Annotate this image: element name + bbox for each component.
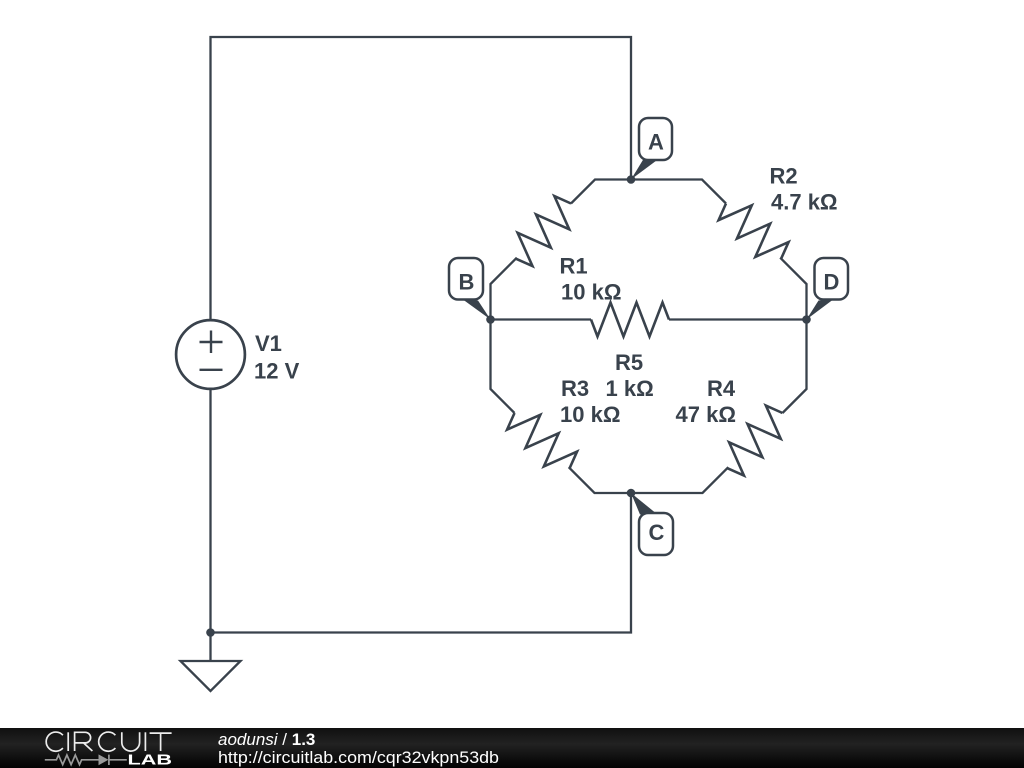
- svg-text:A: A: [648, 130, 664, 155]
- svg-text:aodunsi / 1.3: aodunsi / 1.3: [218, 730, 315, 749]
- svg-text:R2: R2: [770, 164, 798, 189]
- svg-text:B: B: [459, 270, 475, 295]
- svg-text:LAB: LAB: [128, 753, 173, 768]
- svg-text:V1: V1: [255, 331, 282, 356]
- svg-text:4.7 kΩ: 4.7 kΩ: [771, 190, 838, 215]
- svg-text:C: C: [649, 520, 665, 545]
- svg-text:D: D: [824, 270, 840, 295]
- svg-text:R4: R4: [707, 376, 736, 401]
- svg-text:10 kΩ: 10 kΩ: [560, 402, 620, 427]
- svg-text:R1: R1: [560, 254, 588, 279]
- svg-text:1 kΩ: 1 kΩ: [606, 376, 654, 401]
- svg-text:R5: R5: [615, 350, 643, 375]
- svg-text:10 kΩ: 10 kΩ: [561, 280, 621, 305]
- svg-text:R3: R3: [561, 376, 589, 401]
- svg-text:http://circuitlab.com/cqr32vkp: http://circuitlab.com/cqr32vkpn53db: [218, 748, 499, 767]
- svg-text:47 kΩ: 47 kΩ: [676, 402, 736, 427]
- svg-text:12 V: 12 V: [254, 359, 300, 384]
